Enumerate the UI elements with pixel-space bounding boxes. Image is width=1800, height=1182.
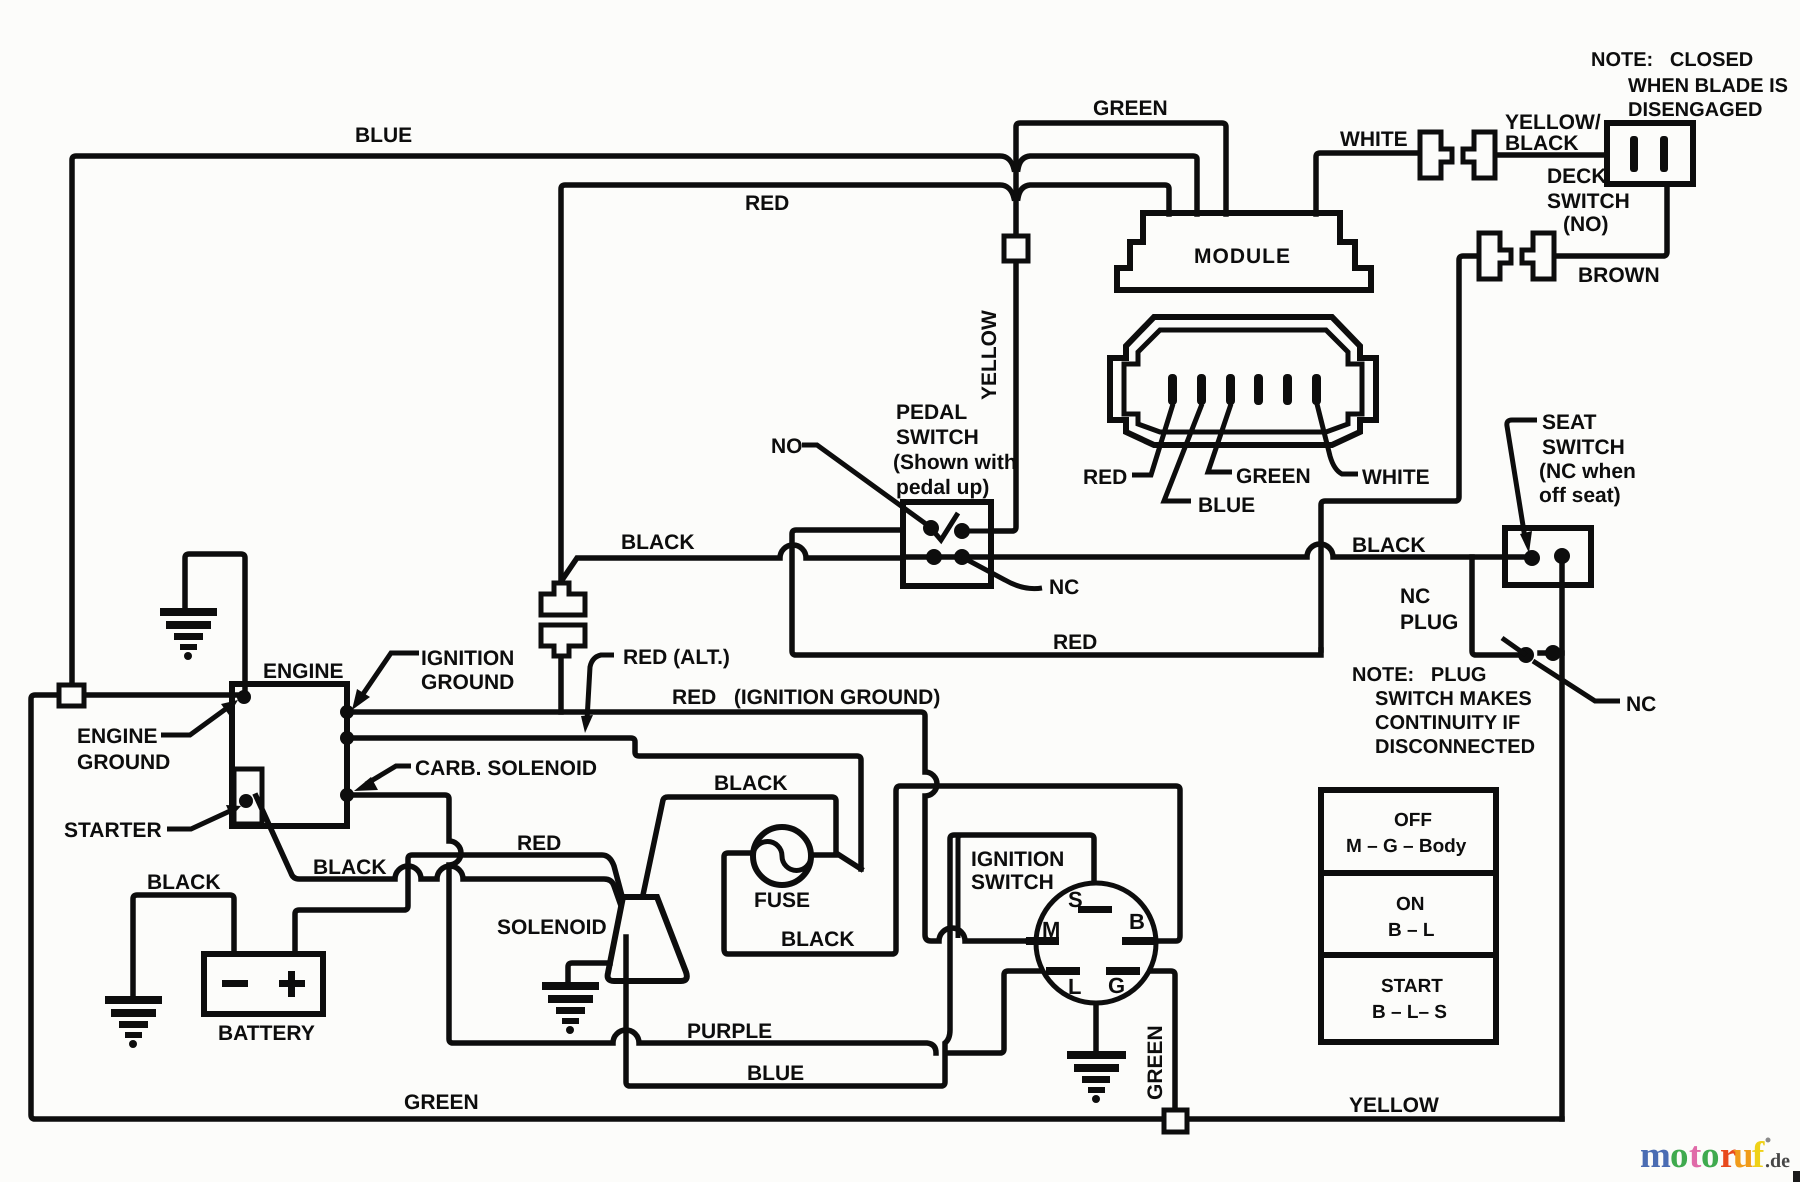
pedal switch contact dot lower left [926,549,942,565]
wire battery plus: up, right, up, right to solenoid top [295,855,622,954]
svg-text:GREEN: GREEN [1236,465,1311,488]
svg-text:G: G [1108,973,1125,998]
ignition terminal bar M [1026,937,1059,945]
wire BLACK: pedal switch to seat switch with hop at deck return [991,544,1505,557]
fuse F1 circle [753,827,811,885]
svg-text:NOTE: PLUG: NOTE: PLUG [1352,664,1486,686]
deck switch box [1607,123,1693,184]
wire fuse right stub to node [811,853,861,869]
fuse F1 wave [753,842,811,871]
svg-text:SWITCH: SWITCH [1542,436,1625,459]
svg-text:NC: NC [1049,576,1079,599]
svg-text:BLACK: BLACK [714,772,788,795]
svg-text:GREEN: GREEN [1144,1025,1167,1100]
svg-text:GREEN: GREEN [1093,97,1168,120]
plug pair P1 piece B [1463,132,1495,178]
svg-text:RED: RED [745,192,789,215]
svg-text:PEDAL: PEDAL [896,401,967,424]
leader from pin1 to RED label [1132,404,1173,475]
NC plug contact dot right [1545,645,1561,661]
deck switch contact bar 1 [1630,136,1638,172]
svg-text:CONTINUITY IF: CONTINUITY IF [1375,712,1520,734]
svg-text:RED (ALT.): RED (ALT.) [623,646,730,669]
svg-text:SWITCH: SWITCH [971,871,1054,894]
wire BROWN: deck switch down, left to plug pair [1554,185,1667,256]
svg-text:RED: RED [517,832,561,855]
junction dot ignition ground [340,705,354,719]
svg-text:B – L– S: B – L– S [1372,1002,1447,1023]
svg-text:YELLOW: YELLOW [1349,1094,1439,1117]
svg-text:BATTERY: BATTERY [218,1022,315,1045]
plug pair P2 piece B [1522,233,1554,279]
battery plus symbol [279,980,305,987]
wire BLACK: solenoid to fuse-right node [643,797,836,895]
wire RED (ALT.): engine to fuse node via step and vertical [347,738,861,869]
svg-text:BLACK: BLACK [621,531,695,554]
red alt leader arrow [587,655,614,720]
module U1 body [1117,213,1371,290]
wire RED ignition ground: engine to M terminal path with hops [347,712,1028,941]
svg-text:off seat): off seat) [1539,484,1621,507]
wire seat switch return: right contact down to bottom yellow wire [1559,558,1565,1119]
svg-text:BROWN: BROWN [1578,264,1660,287]
pedal switch upper right stub [962,529,991,534]
connector J1 pin 2 [1197,374,1206,405]
ignition switch label box [958,835,1090,938]
svg-text:STARTER: STARTER [64,819,162,842]
wire BLACK main interlock: tap at red inline connector, right to pedal switch [562,545,903,580]
svg-text:IGNITION: IGNITION [421,647,514,670]
svg-text:YELLOW: YELLOW [978,310,1001,400]
leader NO label to pedal contact [802,445,926,524]
svg-text:WHITE: WHITE [1340,128,1408,151]
svg-text:BLUE: BLUE [1198,494,1255,517]
wire S terminal / BLUE: S bar up, left, down past crossings, left to solenoid plunger [626,835,1094,1086]
connector J1 pin 3 [1226,374,1235,405]
starter leader arrow [167,811,230,829]
ignition terminal bar L [1046,967,1080,975]
carb solenoid leader arrow [366,766,411,784]
ignition terminal bar B [1122,937,1155,945]
svg-text:YELLOW/: YELLOW/ [1505,111,1601,134]
svg-text:MODULE: MODULE [1194,245,1291,268]
starter box inside engine [234,769,262,824]
svg-text:BLUE: BLUE [355,124,412,147]
wire NC plug right contact stub to seat return vertical [1540,650,1562,656]
ignition terminal bar S [1078,906,1112,913]
ignition terminal bar G [1106,967,1140,975]
wire solenoid ground stub [568,963,610,981]
wire BLACK: starter diagonal and run to solenoid with hops [256,796,620,903]
ground symbol at ignition switch [1067,1051,1126,1059]
ground symbol at solenoid [542,982,599,990]
pedal switch NO blade [929,513,958,540]
wire G terminal to square connector on bottom wire [1140,971,1175,1110]
junction dot carb solenoid [340,788,354,802]
svg-text:IGNITION: IGNITION [971,848,1064,871]
svg-text:B: B [1129,909,1145,934]
wire PURPLE/L junction segment right of jog [950,971,1049,1053]
wire M terminal bar stub [1028,938,1040,944]
svg-text:OFF: OFF [1394,810,1432,831]
svg-text:o: o [1701,1135,1720,1176]
leader from pin3 to GREEN label [1208,404,1232,472]
pedal switch NC blade and leader to NC label [962,557,1042,589]
connector J1 pin 5 [1283,374,1292,405]
connector J1 pin 6 [1312,374,1321,405]
svg-text:GREEN: GREEN [404,1091,479,1114]
battery box [204,954,323,1014]
svg-text:L: L [1068,974,1081,999]
engine ground leader arrow [161,708,227,735]
junction dot red alt [340,731,354,745]
switch table divider 1 [1321,870,1496,876]
ground symbol at engine (bars) [160,608,217,616]
svg-text:NC: NC [1400,585,1430,608]
logo accent dot [1766,1138,1771,1143]
seat switch contact dot left [1524,550,1540,566]
wire YELLOW/BLACK: plug pair to deck switch [1495,152,1607,158]
ground symbol at battery [105,996,162,1004]
wire YELLOW bottom: square connector to seat return corner [1187,1116,1562,1122]
wire RED: module pin1 up, left, down to inline connector, down to ignition-ground node [1018,185,1169,214]
svg-text:BLACK: BLACK [313,856,387,879]
leader from pin2 to BLUE label [1164,404,1202,501]
svg-text:DISENGAGED: DISENGAGED [1628,99,1762,121]
svg-text:CARB. SOLENOID: CARB. SOLENOID [415,757,597,780]
wire branch down to NC plug contacts [1472,557,1524,655]
inline connector on red wire bottom piece [541,625,585,656]
inline connector on red wire top piece [541,583,585,615]
NC plug leader to NC label [1533,661,1620,701]
connector J1 inner shell [1124,330,1362,432]
page corner mark [1793,1171,1800,1182]
svg-text:WHITE: WHITE [1362,466,1430,489]
svg-text:NOTE: CLOSED: NOTE: CLOSED [1591,49,1753,71]
ignition ground leader arrow [361,653,419,697]
pedal switch contact dot upper right [954,523,970,539]
svg-text:DISCONNECTED: DISCONNECTED [1375,736,1535,758]
plug pair P1 piece A (white side) [1420,132,1452,178]
svg-text:NO: NO [771,435,803,458]
svg-text:(Shown with: (Shown with [893,451,1017,474]
svg-text:DECK: DECK [1547,165,1607,188]
svg-text:RED: RED [1053,631,1097,654]
wire fuse to B terminal: fuse left, down, right, up, right across, down to B [724,786,1180,954]
svg-text:BLACK: BLACK [147,871,221,894]
svg-text:ENGINE: ENGINE [263,660,344,683]
svg-text:WHEN BLADE IS: WHEN BLADE IS [1628,75,1788,97]
svg-text:BLACK: BLACK [1505,132,1579,155]
svg-text:RED: RED [1083,466,1127,489]
pedal switch contact dot upper left [923,520,939,536]
svg-text:GROUND: GROUND [77,751,170,774]
wire GREEN: module pin3 up, left, down to square connector (becomes YELLOW) [1016,123,1226,236]
wire BLACK stub inside seat switch [1505,554,1532,560]
svg-text:FUSE: FUSE [754,889,810,912]
square connector on blue wire [59,685,84,706]
wire RED: pedal switch NO to seat circuit, down from pedal NO contact [792,530,1321,655]
svg-text:.de: .de [1765,1150,1790,1172]
svg-text:(NC when: (NC when [1539,460,1636,483]
svg-text:o: o [1670,1135,1689,1176]
square connector on green/yellow wire [1004,236,1028,261]
svg-text:SEAT: SEAT [1542,411,1597,434]
square connector on bottom yellow/green wire [1164,1110,1187,1132]
svg-text:BLACK: BLACK [1352,534,1426,557]
engine box [232,684,347,826]
wire RED lower segment below inline connector [558,656,564,712]
svg-text:f: f [1752,1135,1765,1176]
wire BLUE: module pin2 up, left across top, down left edge to square connector [1018,156,1197,214]
wire GREEN bottom: square connector left wire, down left edge, right along bottom [31,695,1164,1119]
wire BLACK through pedal switch box [903,554,991,560]
svg-text:M: M [1042,917,1060,942]
PARTS_START [204,123,1693,1042]
svg-text:BLUE: BLUE [747,1062,804,1085]
wire engine ground: corner up and left to ground symbol [185,554,245,690]
connector J1 pin 1 [1168,374,1177,405]
svg-text:SWITCH MAKES: SWITCH MAKES [1375,688,1532,710]
wire battery minus to ground [133,895,234,995]
svg-text:B – L: B – L [1388,920,1435,941]
seat switch box [1505,528,1591,585]
seat switch leader arrowhead [1520,531,1532,553]
wire WHITE: module pin4 up and right to plug pair [1316,153,1419,214]
solenoid body [608,897,687,981]
svg-text:NC: NC [1626,693,1656,716]
wire B terminal wire stub [1146,938,1155,944]
junction dot engine ground [237,690,251,704]
svg-text:SWITCH: SWITCH [1547,190,1630,213]
ignition switch key circle [1036,883,1156,1003]
svg-text:PURPLE: PURPLE [687,1020,772,1043]
seat switch leader line [1507,420,1537,538]
svg-text:ON: ON [1396,894,1425,915]
plug pair P2 piece A (brown side) [1479,233,1511,279]
wire YELLOW: below square connector down to pedal switch [991,261,1016,531]
wire ignition switch ground [1093,1003,1099,1050]
wire CARB. SOLENOID / PURPLE: engine dot right, down with hops, right as purple [347,795,936,1053]
deck switch contact bar 2 [1660,136,1668,172]
svg-text:u: u [1733,1135,1754,1176]
NC plug contact dot left [1518,647,1534,663]
connector J1 pin 4 [1254,374,1263,405]
svg-text:M – G – Body: M – G – Body [1346,836,1467,857]
svg-text:GROUND: GROUND [421,671,514,694]
pedal switch box [903,502,991,586]
svg-text:pedal up): pedal up) [896,476,989,499]
svg-text:START: START [1381,976,1443,997]
leader from pin6 to WHITE label [1317,404,1358,474]
connector J1 outer shell [1110,317,1376,445]
NC plug blade [1502,638,1526,655]
svg-text:SOLENOID: SOLENOID [497,916,607,939]
svg-text:BLACK: BLACK [781,928,855,951]
wire square connector to engine ground node [84,692,244,698]
junction dot starter [239,794,253,808]
svg-text:RED (IGNITION GROUND): RED (IGNITION GROUND) [672,686,940,709]
svg-text:PLUG: PLUG [1400,611,1458,634]
svg-text:m: m [1640,1135,1671,1176]
seat switch contact dot right [1554,548,1570,564]
svg-text:SWITCH: SWITCH [896,426,979,449]
battery minus symbol [222,980,248,987]
switch table box [1321,790,1496,1042]
pedal switch contact dot lower right [954,549,970,565]
wire from brown plug left, down, left, down to red wire (deck circuit return) [1321,256,1478,650]
svg-text:S: S [1068,887,1083,912]
svg-text:(NO): (NO) [1563,213,1609,236]
switch table divider 2 [1321,952,1496,958]
svg-text:ENGINE: ENGINE [77,725,158,748]
